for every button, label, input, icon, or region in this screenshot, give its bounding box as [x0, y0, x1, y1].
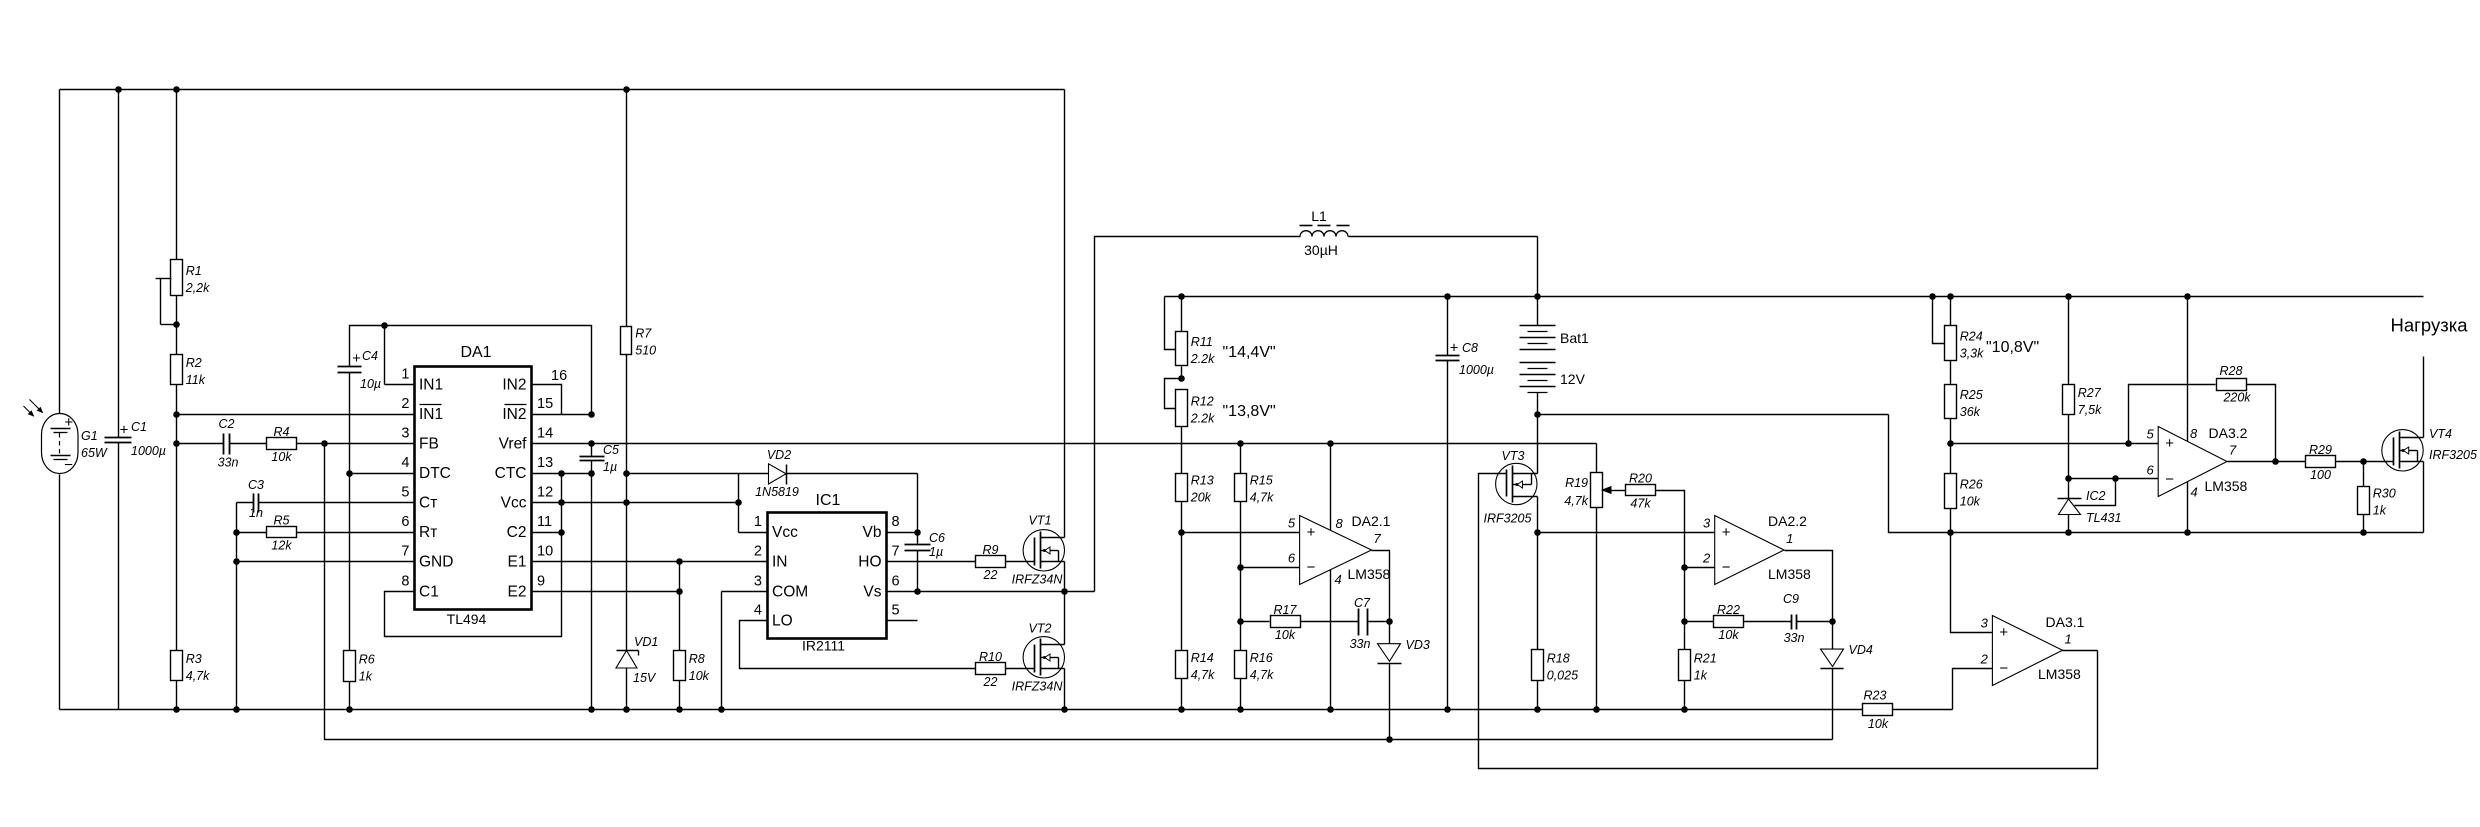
svg-text:R9: R9	[983, 543, 999, 557]
svg-text:+: +	[1999, 624, 2008, 641]
svg-text:14: 14	[537, 426, 553, 442]
svg-text:1000µ: 1000µ	[1459, 363, 1494, 377]
svg-text:7,5k: 7,5k	[2078, 403, 2102, 417]
svg-text:1µ: 1µ	[603, 460, 617, 474]
svg-text:C4: C4	[362, 349, 378, 363]
svg-text:R25: R25	[1960, 388, 1983, 402]
svg-text:IN2: IN2	[502, 406, 526, 423]
svg-text:3: 3	[754, 574, 762, 590]
svg-text:R19: R19	[1565, 476, 1588, 490]
svg-text:R3: R3	[186, 652, 202, 666]
svg-text:C1: C1	[419, 584, 439, 601]
svg-text:R4: R4	[274, 425, 290, 439]
svg-text:CTC: CTC	[495, 465, 527, 482]
svg-text:2: 2	[1980, 651, 1989, 666]
svg-text:6: 6	[1288, 551, 1296, 566]
svg-text:10k: 10k	[271, 450, 292, 464]
svg-text:C9: C9	[1783, 592, 1799, 606]
svg-text:−: −	[64, 457, 73, 474]
svg-text:1: 1	[1786, 531, 1793, 546]
svg-text:R15: R15	[1250, 474, 1273, 488]
svg-text:DA2.2: DA2.2	[1768, 513, 1807, 529]
svg-text:7: 7	[1374, 531, 1382, 546]
svg-text:12V: 12V	[1560, 371, 1586, 387]
svg-text:10k: 10k	[1868, 717, 1889, 731]
svg-text:C7: C7	[1354, 596, 1371, 610]
svg-text:IN2: IN2	[502, 377, 526, 394]
svg-text:5: 5	[892, 603, 900, 619]
svg-text:3,3k: 3,3k	[1960, 347, 1984, 361]
svg-text:12: 12	[537, 485, 553, 501]
svg-text:4,7k: 4,7k	[1564, 494, 1588, 508]
svg-text:8: 8	[401, 574, 409, 590]
svg-text:DA3.2: DA3.2	[2209, 425, 2248, 441]
svg-text:2: 2	[401, 396, 409, 412]
svg-text:C1: C1	[131, 420, 147, 434]
svg-text:VD1: VD1	[634, 635, 658, 649]
svg-text:510: 510	[635, 344, 656, 358]
svg-text:G1: G1	[81, 429, 98, 443]
svg-text:R22: R22	[1717, 603, 1740, 617]
svg-text:VT2: VT2	[1029, 622, 1052, 636]
svg-text:R26: R26	[1960, 478, 1983, 492]
svg-text:VD3: VD3	[1406, 638, 1430, 652]
svg-text:1k: 1k	[2373, 504, 2387, 518]
svg-text:COM: COM	[772, 584, 808, 601]
svg-text:TL431: TL431	[2086, 511, 2121, 525]
svg-text:+: +	[1450, 340, 1459, 357]
svg-text:2.2k: 2.2k	[1190, 352, 1215, 366]
svg-text:IRF3205: IRF3205	[2429, 448, 2477, 462]
svg-text:2,2k: 2,2k	[185, 281, 210, 295]
svg-text:5: 5	[1288, 516, 1296, 531]
svg-text:C5: C5	[603, 443, 619, 457]
svg-text:R14: R14	[1191, 651, 1214, 665]
svg-text:33n: 33n	[218, 456, 239, 470]
svg-text:C3: C3	[248, 478, 264, 492]
svg-text:IN1: IN1	[419, 406, 443, 423]
svg-text:4: 4	[401, 455, 409, 471]
svg-text:1n: 1n	[249, 506, 263, 520]
svg-text:20k: 20k	[1190, 491, 1212, 505]
svg-text:5: 5	[401, 485, 409, 501]
svg-text:IRF3205: IRF3205	[1484, 512, 1532, 526]
svg-text:30µH: 30µH	[1304, 242, 1338, 258]
svg-text:R6: R6	[359, 653, 375, 667]
svg-text:R17: R17	[1274, 603, 1298, 617]
svg-text:12k: 12k	[271, 539, 292, 553]
svg-text:R16: R16	[1250, 651, 1273, 665]
svg-text:7: 7	[2229, 443, 2237, 458]
svg-text:16: 16	[551, 368, 567, 384]
svg-text:6: 6	[892, 574, 900, 590]
svg-text:1: 1	[754, 514, 762, 530]
svg-text:1000µ: 1000µ	[131, 444, 166, 458]
svg-text:IRFZ34N: IRFZ34N	[1012, 680, 1064, 694]
svg-text:4,7k: 4,7k	[186, 669, 210, 683]
svg-text:5: 5	[2146, 427, 2154, 442]
svg-text:LM358: LM358	[2205, 478, 2248, 494]
svg-text:10k: 10k	[1275, 628, 1296, 642]
svg-text:4,7k: 4,7k	[1250, 668, 1274, 682]
svg-text:GND: GND	[419, 554, 453, 571]
svg-text:L1: L1	[1311, 208, 1327, 224]
svg-text:4: 4	[754, 603, 762, 619]
svg-text:IR2111: IR2111	[802, 638, 845, 654]
svg-text:+: +	[120, 422, 129, 439]
svg-text:IN: IN	[772, 554, 788, 571]
svg-text:15V: 15V	[633, 671, 657, 685]
svg-text:6: 6	[2146, 463, 2154, 478]
svg-text:C8: C8	[1462, 341, 1478, 355]
svg-text:47k: 47k	[1630, 497, 1651, 511]
svg-text:+: +	[1307, 524, 1316, 541]
svg-text:DA1: DA1	[460, 344, 491, 361]
svg-text:10k: 10k	[1718, 628, 1739, 642]
svg-text:Нагрузка: Нагрузка	[2391, 315, 2469, 336]
svg-text:8: 8	[892, 514, 900, 530]
svg-text:IN1: IN1	[419, 377, 443, 394]
svg-text:C2: C2	[507, 524, 527, 541]
svg-text:LM358: LM358	[2038, 666, 2081, 682]
svg-text:1: 1	[401, 367, 409, 383]
svg-text:10k: 10k	[689, 669, 710, 683]
svg-text:220k: 220k	[2222, 391, 2251, 405]
svg-text:7: 7	[892, 544, 900, 560]
svg-text:36k: 36k	[1960, 405, 1981, 419]
svg-text:R1: R1	[186, 264, 202, 278]
svg-text:R29: R29	[2309, 443, 2332, 457]
svg-text:C6: C6	[929, 531, 945, 545]
svg-text:"10,8V": "10,8V"	[1986, 339, 2039, 356]
svg-text:1k: 1k	[1694, 669, 1708, 683]
svg-text:R23: R23	[1864, 689, 1887, 703]
svg-text:1N5819: 1N5819	[755, 485, 799, 499]
svg-text:4,7k: 4,7k	[1191, 668, 1215, 682]
svg-text:3: 3	[401, 426, 409, 442]
svg-text:Vb: Vb	[863, 524, 882, 541]
svg-text:DTC: DTC	[419, 465, 451, 482]
svg-text:R18: R18	[1547, 652, 1570, 666]
svg-text:"14,4V": "14,4V"	[1223, 344, 1276, 361]
svg-text:Vcc: Vcc	[501, 495, 527, 512]
svg-text:33n: 33n	[1784, 631, 1805, 645]
svg-text:10k: 10k	[1960, 495, 1981, 509]
svg-text:6: 6	[401, 514, 409, 530]
svg-text:−: −	[1999, 660, 2008, 677]
svg-text:11: 11	[537, 514, 552, 530]
svg-text:10: 10	[537, 544, 553, 560]
svg-text:33n: 33n	[1350, 637, 1371, 651]
svg-text:R13: R13	[1191, 474, 1214, 488]
svg-text:E2: E2	[508, 584, 527, 601]
svg-text:+: +	[1722, 524, 1731, 541]
svg-text:100: 100	[2310, 468, 2331, 482]
svg-text:IRFZ34N: IRFZ34N	[1012, 573, 1064, 587]
svg-text:4,7k: 4,7k	[1250, 491, 1274, 505]
svg-text:Bat1: Bat1	[1560, 330, 1589, 346]
svg-text:1: 1	[2065, 631, 2072, 646]
svg-text:DA3.1: DA3.1	[2046, 614, 2085, 630]
svg-text:Cт: Cт	[419, 495, 437, 512]
svg-text:E1: E1	[508, 554, 527, 571]
svg-text:R5: R5	[274, 514, 290, 528]
svg-text:R2: R2	[186, 356, 202, 370]
svg-text:R11: R11	[1191, 335, 1213, 349]
svg-text:9: 9	[537, 574, 545, 590]
svg-text:3: 3	[1981, 615, 1989, 630]
svg-text:1k: 1k	[359, 670, 373, 684]
svg-text:R20: R20	[1629, 472, 1652, 486]
svg-text:8: 8	[2190, 426, 2198, 441]
svg-text:"13,8V": "13,8V"	[1223, 403, 1276, 420]
svg-text:8: 8	[1336, 516, 1344, 531]
svg-text:R10: R10	[979, 650, 1002, 664]
svg-text:2.2k: 2.2k	[1190, 412, 1215, 426]
svg-text:Rт: Rт	[419, 524, 437, 541]
svg-text:4: 4	[2191, 485, 2198, 500]
svg-text:LM358: LM358	[1348, 566, 1391, 582]
svg-text:22: 22	[983, 568, 998, 582]
svg-text:1µ: 1µ	[929, 545, 943, 559]
svg-text:R8: R8	[689, 652, 705, 666]
svg-text:HO: HO	[858, 554, 881, 571]
svg-text:65W: 65W	[81, 446, 108, 460]
svg-text:R12: R12	[1191, 395, 1214, 409]
svg-text:LO: LO	[772, 613, 793, 630]
svg-text:Vref: Vref	[499, 436, 528, 453]
svg-text:IC2: IC2	[2086, 489, 2106, 503]
svg-text:11k: 11k	[186, 373, 206, 387]
svg-text:VD2: VD2	[767, 448, 791, 462]
svg-text:+: +	[64, 414, 73, 431]
svg-text:R30: R30	[2373, 487, 2396, 501]
svg-text:R24: R24	[1960, 330, 1983, 344]
svg-text:Vs: Vs	[863, 584, 881, 601]
svg-text:VD4: VD4	[1849, 643, 1873, 657]
svg-text:C2: C2	[219, 417, 235, 431]
svg-text:7: 7	[401, 544, 409, 560]
svg-text:4: 4	[1335, 572, 1342, 587]
svg-text:−: −	[2165, 471, 2174, 488]
svg-text:13: 13	[537, 455, 553, 471]
svg-text:−: −	[1307, 559, 1316, 576]
svg-text:Vcc: Vcc	[772, 524, 798, 541]
svg-text:R21: R21	[1694, 652, 1717, 666]
svg-text:0,025: 0,025	[1547, 669, 1578, 683]
svg-text:+: +	[2165, 435, 2174, 452]
svg-text:VT1: VT1	[1029, 514, 1052, 528]
svg-text:R7: R7	[635, 327, 652, 341]
svg-text:LM358: LM358	[1768, 566, 1811, 582]
svg-text:VT3: VT3	[1502, 449, 1525, 463]
svg-text:+: +	[352, 350, 361, 367]
svg-text:10µ: 10µ	[360, 377, 381, 391]
svg-text:FB: FB	[419, 436, 439, 453]
svg-text:VT4: VT4	[2429, 427, 2452, 441]
svg-text:22: 22	[983, 675, 998, 689]
svg-text:IC1: IC1	[816, 492, 841, 509]
svg-text:R28: R28	[2220, 364, 2243, 378]
svg-text:R27: R27	[2078, 386, 2102, 400]
svg-text:2: 2	[1702, 551, 1711, 566]
svg-text:2: 2	[754, 544, 762, 560]
svg-text:15: 15	[537, 396, 553, 412]
svg-text:DA2.1: DA2.1	[1352, 513, 1391, 529]
svg-text:TL494: TL494	[447, 611, 487, 627]
svg-text:−: −	[1722, 559, 1731, 576]
svg-text:3: 3	[1703, 516, 1711, 531]
